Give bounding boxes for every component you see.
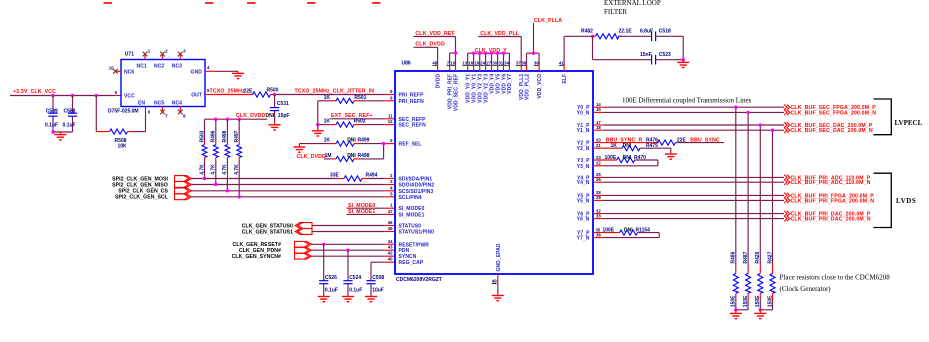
svg-text:Y5_N: Y5_N	[577, 198, 590, 204]
svg-text:9: 9	[115, 90, 118, 95]
svg-text:PRI_REFN: PRI_REFN	[399, 99, 425, 105]
wire R486/R487 bottoms join	[736, 309, 748, 311]
wire transmission line 4 from Y1_N	[772, 130, 774, 265]
resistor R470 100E DNI across Y3	[593, 155, 658, 166]
wire CLK_PLLA to pins 38,39	[527, 23, 540, 71]
svg-text:R427: R427	[767, 251, 773, 263]
svg-text:GND: GND	[191, 69, 203, 75]
net CLK_BUF_SEC_DAC_200.0M_N label	[784, 128, 873, 135]
wire CLK_VDD_REF to pins 7,10	[414, 37, 456, 72]
svg-text:38: 38	[521, 61, 526, 66]
wire CLK_VDD_PLL to pin 37	[478, 37, 521, 72]
svg-text:C508: C508	[372, 275, 384, 281]
svg-text:13: 13	[463, 61, 468, 66]
svg-text:VDD_Y7: VDD_Y7	[507, 74, 513, 94]
node junction Y1_N tap	[771, 129, 774, 132]
ground below R501/R502 node	[312, 125, 324, 136]
svg-text:VDD_Y4: VDD_Y4	[489, 74, 495, 94]
svg-text:SI_MODE0: SI_MODE0	[399, 206, 425, 212]
svg-text:1K: 1K	[324, 138, 331, 144]
svg-text:TCXO_25MHz: TCXO_25MHz	[210, 89, 245, 95]
svg-text:NC3: NC3	[172, 64, 182, 70]
ground below C589/C588	[54, 132, 66, 140]
svg-text:ELF: ELF	[562, 74, 568, 84]
svg-text:DNI: DNI	[266, 113, 275, 119]
wire RESET line	[311, 243, 395, 245]
svg-text:C526: C526	[325, 275, 337, 281]
wire CLK_VDD_Y rail to pins 13-34	[468, 53, 510, 71]
node junction SCL/R497	[238, 195, 241, 198]
svg-text:11: 11	[388, 113, 393, 118]
resistor R508 10K	[110, 129, 146, 149]
svg-text:EXTERNAL LOOP: EXTERNAL LOOP	[604, 0, 661, 7]
resistor R502 1K on SEC_REFN	[318, 119, 395, 128]
wire +3.3V rail	[10, 95, 121, 97]
wire Y6_N output line	[593, 213, 784, 218]
svg-text:46: 46	[388, 220, 393, 225]
svg-text:GND_EPAD: GND_EPAD	[496, 243, 502, 271]
svg-text:CLK_DVDD: CLK_DVDD	[415, 41, 445, 47]
node junction pin7 branch	[454, 51, 457, 54]
svg-text:150E: 150E	[743, 295, 749, 307]
svg-text:100E: 100E	[603, 227, 615, 233]
node junction rail R498b	[226, 118, 229, 121]
resistor R1154 100E DNI across Y7	[593, 227, 659, 237]
pin NC2 no-connect	[160, 49, 168, 60]
wire STATUS0 line	[312, 225, 395, 227]
svg-text:47: 47	[388, 209, 393, 214]
svg-text:R487: R487	[743, 251, 749, 263]
net CLK_BUF_PRI_DAC_200.0M_P label	[784, 211, 871, 218]
connector CLK_GEN_PDN#	[295, 247, 312, 253]
connector SPI2_CLK_GEN_CS	[175, 188, 192, 194]
svg-text:U86: U86	[402, 61, 411, 67]
svg-text:D75F-025.0M: D75F-025.0M	[108, 108, 139, 114]
svg-text:CLK_BUF_SEC_FPGA_200.0M_N: CLK_BUF_SEC_FPGA_200.0M_N	[791, 110, 877, 116]
svg-text:1K: 1K	[324, 119, 331, 125]
svg-text:150E: 150E	[755, 295, 761, 307]
ground below R486/R487	[730, 310, 742, 319]
wire cap bottoms join	[53, 131, 73, 133]
wire transmission line 3 from Y1_P	[759, 125, 761, 265]
ground at REF_SEL resistor left	[293, 144, 305, 153]
svg-text:33: 33	[596, 213, 601, 218]
svg-text:SPI2_CLK_GEN_MISO: SPI2_CLK_GEN_MISO	[112, 182, 168, 188]
resistor R427 150E	[767, 251, 775, 309]
svg-text:10: 10	[109, 65, 114, 70]
node junction R501/R502	[316, 123, 319, 126]
net EXT_SEC_REF+ wire to SEC_REFP	[330, 113, 395, 119]
resistor R496 4.7K pullup	[211, 119, 219, 184]
svg-text:VDD_PLL2: VDD_PLL2	[524, 74, 530, 100]
wire Y1_N output line	[593, 125, 784, 130]
svg-text:27: 27	[486, 61, 491, 66]
svg-text:43: 43	[388, 245, 393, 250]
resistor R501 1K on PRI_REFN	[318, 95, 395, 104]
svg-text:1M: 1M	[325, 153, 332, 159]
svg-text:44: 44	[388, 239, 393, 244]
ground below C508	[365, 297, 377, 302]
svg-text:6: 6	[148, 110, 151, 115]
U86 left pin numbers	[388, 89, 393, 262]
svg-text:15: 15	[596, 107, 601, 112]
wire VCC to R508 branch	[96, 96, 109, 132]
svg-text:BBU_SYNC: BBU_SYNC	[690, 138, 720, 144]
resistor R499 1K DNI on REF_SEL	[299, 138, 395, 147]
svg-text:20: 20	[596, 137, 601, 142]
resistor R497 4.7K pullup	[234, 119, 242, 197]
node junction CS/R498	[226, 189, 229, 192]
wire R498 up to REF_SEL	[383, 144, 385, 159]
net BBU_SYNC_R / resistor R476 22E on Y2_P	[593, 137, 724, 145]
svg-text:100E: 100E	[605, 155, 617, 161]
svg-text:CLK_BUF_PRI_FPGA_200.0M_N: CLK_BUF_PRI_FPGA_200.0M_N	[791, 198, 875, 204]
resistor R503 4.7K pullup	[199, 119, 207, 178]
wire PDN line	[311, 249, 395, 251]
svg-text:EXT_SEC_REF+: EXT_SEC_REF+	[331, 113, 373, 119]
wire Y1_P output line	[593, 120, 784, 125]
svg-text:10: 10	[450, 61, 455, 66]
node junction loop filter ground	[682, 58, 685, 61]
svg-text:PRI_REFP: PRI_REFP	[399, 93, 425, 99]
connector SPI2_CLK_GEN_MOSI	[175, 176, 192, 182]
svg-text:29: 29	[596, 195, 601, 200]
node junction C531 tap	[273, 93, 276, 96]
svg-text:STATUS1/PIN0: STATUS1/PIN0	[399, 230, 435, 236]
svg-text:22.1E: 22.1E	[619, 29, 633, 35]
svg-text:CLK_BUF_SEC_DAC_200.0M_N: CLK_BUF_SEC_DAC_200.0M_N	[791, 128, 873, 134]
capacitor C531 DNI 15pF	[266, 95, 290, 124]
pin 49 number rotated	[492, 279, 498, 284]
svg-text:DNI: DNI	[347, 138, 356, 144]
node junction Y1_P tap	[759, 123, 762, 126]
svg-text:30: 30	[492, 61, 497, 66]
svg-text:5: 5	[390, 191, 393, 196]
svg-text:22E: 22E	[244, 89, 254, 95]
svg-text:8: 8	[183, 114, 186, 119]
node junction MOSI/R503	[203, 177, 206, 180]
net TCXO_25MHz wire	[210, 89, 254, 95]
node junction R486 bottom	[734, 308, 737, 311]
pin 5 OUT stub	[205, 88, 216, 95]
wire MOSI line with resistor R494 33E	[191, 173, 395, 181]
resistor R486 150E	[731, 251, 739, 309]
svg-text:SPI2_CLK_GEN_SCL: SPI2_CLK_GEN_SCL	[115, 195, 169, 201]
svg-text:R501: R501	[354, 95, 366, 101]
wire Y4_P output line	[593, 172, 784, 177]
U86 top pin names rotated	[435, 74, 568, 112]
connector SPI2_CLK_GEN_MISO	[175, 182, 192, 188]
node junction loop filter input	[591, 35, 594, 38]
svg-text:2: 2	[165, 49, 168, 54]
capacitor C518 6.8uF	[640, 29, 683, 42]
U86 right pin names	[577, 105, 590, 241]
svg-text:7: 7	[165, 114, 168, 119]
svg-text:R502: R502	[354, 119, 366, 125]
node junction Y0_N tap	[746, 111, 749, 114]
svg-text:150E: 150E	[731, 295, 737, 307]
net CLK_BUF_SEC_FPGA_200.0M_P label	[784, 105, 876, 112]
svg-text:1K: 1K	[611, 143, 618, 149]
capacitor C526 0.1uF	[319, 244, 338, 296]
svg-text:100E Differential coupled Tran: 100E Differential coupled Transmission L…	[622, 96, 752, 104]
svg-text:48: 48	[432, 61, 437, 66]
svg-text:22E: 22E	[677, 138, 687, 144]
svg-text:15pF: 15pF	[278, 113, 290, 119]
cropped net label underline dashes at top	[104, 2, 381, 4]
wire MISO line	[191, 184, 395, 186]
svg-text:(Clock Generator): (Clock Generator)	[780, 285, 832, 293]
wire ELF pin 41 to loop filter	[564, 36, 592, 71]
ground below C526	[318, 297, 330, 302]
svg-text:6.8uF: 6.8uF	[640, 29, 653, 35]
resistor R500 22E	[253, 87, 279, 97]
node junction rail R497	[238, 118, 241, 121]
ground below R475	[665, 154, 677, 159]
wire REG_CAP line	[371, 261, 395, 263]
svg-text:4.7K: 4.7K	[234, 164, 240, 175]
svg-text:DVDD: DVDD	[435, 74, 441, 89]
svg-text:CLK_BUF_PRI_ADC_110.0M_N: CLK_BUF_PRI_ADC_110.0M_N	[791, 180, 871, 186]
svg-text:23: 23	[596, 155, 601, 160]
svg-text:0.1uF: 0.1uF	[45, 123, 58, 129]
svg-text:DNI: DNI	[347, 153, 356, 159]
svg-text:Place resistors close to the C: Place resistors close to the CDCM6208	[780, 274, 891, 282]
svg-text:SEC_REFN: SEC_REFN	[399, 123, 427, 129]
net CLK_BUF_PRI_FPGA_200.0M_N label	[784, 198, 874, 205]
svg-text:Y0_N: Y0_N	[577, 110, 590, 116]
wire SYNCN line	[311, 255, 395, 257]
svg-text:R503: R503	[199, 130, 205, 142]
node junction rail R496	[214, 118, 217, 121]
pin NC4 no-connect	[178, 107, 186, 119]
svg-text:Y6_N: Y6_N	[577, 217, 590, 223]
svg-text:OUT: OUT	[191, 93, 202, 99]
svg-text:U71: U71	[125, 52, 134, 58]
svg-text:C524: C524	[349, 275, 361, 281]
bracket LVPECL	[874, 99, 923, 135]
svg-text:SDO/AD0/PIN2: SDO/AD0/PIN2	[399, 183, 435, 189]
svg-text:R426: R426	[755, 251, 761, 263]
wire transmission line 1 from Y0_P	[735, 107, 737, 265]
svg-text:Y7_N: Y7_N	[577, 236, 590, 242]
svg-text:0.1uF: 0.1uF	[325, 288, 338, 294]
node junction cap bottom	[51, 130, 54, 133]
wire R508 up to EN	[145, 107, 147, 132]
svg-text:45: 45	[388, 226, 393, 231]
node junction R426 bottom	[759, 308, 762, 311]
capacitor C589	[45, 96, 58, 133]
node junctions CLK_VDD_Y rail	[472, 52, 505, 55]
pin 4 GND wire to ground	[205, 65, 244, 79]
svg-text:33E: 33E	[330, 173, 340, 179]
wire Y0_N output line	[593, 107, 784, 112]
net CLK_DVDD pullup rail	[205, 113, 268, 119]
svg-text:4.7K: 4.7K	[222, 164, 228, 175]
svg-text:19: 19	[475, 61, 480, 66]
svg-text:10K: 10K	[118, 143, 128, 149]
svg-text:REF_SEL: REF_SEL	[399, 142, 422, 148]
svg-text:CLK_PLLA: CLK_PLLA	[534, 18, 562, 24]
svg-text:0.1uF: 0.1uF	[349, 288, 362, 294]
wire loop filter lower branch	[593, 36, 652, 59]
svg-text:NC2: NC2	[154, 64, 164, 70]
wire Y0_P output line	[593, 102, 784, 107]
svg-text:R498: R498	[222, 130, 228, 142]
svg-text:16: 16	[468, 61, 473, 66]
wire Y7_N line	[593, 232, 659, 237]
svg-text:22: 22	[596, 161, 601, 166]
svg-text:8: 8	[390, 89, 393, 94]
svg-text:10uF: 10uF	[372, 288, 384, 294]
U86 left pin names	[399, 93, 435, 267]
svg-text:VDD_Y0_Y1: VDD_Y0_Y1	[471, 74, 477, 103]
svg-text:R494: R494	[366, 173, 378, 179]
svg-text:CLK_BUF_PRI_DAC_200.0M_N: CLK_BUF_PRI_DAC_200.0M_N	[791, 217, 871, 223]
wire Y5_P output line	[593, 190, 784, 195]
net CLK_BUF_PRI_DAC_200.0M_N label	[784, 216, 871, 223]
wire C518 down to ground node	[682, 36, 684, 59]
svg-text:Y3_N: Y3_N	[577, 164, 590, 170]
svg-text:26: 26	[596, 177, 601, 182]
U86 top pin numbers rotated	[432, 61, 564, 66]
node junction CLK_PLLA rail	[532, 52, 535, 55]
node junction MISO/R496	[214, 183, 217, 186]
resistor R498 4.7K pullup	[222, 119, 230, 191]
IC U86 CDCM6208 body	[395, 61, 593, 283]
capacitor C523 15nF	[640, 52, 683, 65]
connector CLK_GEN_SYNCN#	[295, 253, 312, 259]
net CLK_BUF_PRI_ADC_110.0M_N label	[784, 180, 871, 187]
wire Y4_N output line	[593, 177, 784, 182]
ground below R426/R427	[754, 310, 766, 319]
capacitor C524 0.1uF	[343, 250, 362, 296]
wire CS line	[191, 190, 395, 192]
svg-text:0.1uF: 0.1uF	[63, 123, 76, 129]
connector CLK_GEN_STATUS1	[295, 229, 312, 235]
svg-text:CDCM6208V2RGZT: CDCM6208V2RGZT	[396, 277, 442, 283]
pin NC3 no-connect	[178, 49, 186, 60]
svg-text:Y2_N: Y2_N	[577, 146, 590, 152]
svg-text:EN: EN	[138, 100, 145, 106]
svg-text:24: 24	[480, 61, 485, 66]
connector CLK_GEN_STATUS0	[295, 223, 312, 229]
svg-text:R496: R496	[211, 130, 217, 142]
svg-text:12: 12	[388, 119, 393, 124]
svg-text:R482: R482	[581, 29, 593, 35]
capacitor C508 10uF on REG_CAP	[366, 262, 384, 296]
net SI_MODE0 wire	[347, 203, 396, 209]
svg-text:1: 1	[148, 49, 151, 54]
svg-text:21: 21	[596, 143, 601, 148]
svg-text:VCC: VCC	[124, 94, 135, 100]
svg-text:18: 18	[596, 125, 601, 130]
svg-text:C588: C588	[64, 109, 76, 115]
wire CLK_DVDD to pin 48	[414, 47, 438, 71]
node junction Y0_P tap	[734, 106, 737, 109]
svg-text:6: 6	[390, 138, 393, 143]
wire R426/R427 bottoms join	[760, 309, 772, 311]
svg-text:R499: R499	[358, 138, 370, 144]
svg-text:39: 39	[534, 61, 539, 66]
capacitor C588	[63, 96, 78, 133]
svg-text:Y4_N: Y4_N	[577, 180, 590, 186]
resistor R482 22.1E	[581, 29, 652, 39]
svg-text:1: 1	[390, 203, 393, 208]
svg-text:1K: 1K	[324, 95, 331, 101]
pin NC5 no-connect	[160, 107, 168, 119]
svg-text:40: 40	[388, 257, 393, 262]
svg-text:FILTER: FILTER	[604, 8, 627, 16]
svg-text:TCXO_25MHz_CLK_JITTER_IN: TCXO_25MHz_CLK_JITTER_IN	[295, 89, 375, 95]
wire R501 left down to R502 node	[317, 101, 319, 125]
svg-text:NC6: NC6	[124, 69, 134, 75]
svg-text:+3.3V_CLK_VCC: +3.3V_CLK_VCC	[13, 89, 56, 95]
svg-text:41: 41	[559, 61, 564, 66]
text EXTERNAL LOOP FILTER	[604, 0, 661, 16]
svg-text:C531: C531	[277, 101, 289, 107]
svg-text:36: 36	[596, 232, 601, 237]
net CLK_BUF_PRI_FPGA_200.0M_P label	[784, 193, 874, 200]
svg-text:CLK_GEN_STATUS1: CLK_GEN_STATUS1	[242, 229, 293, 235]
pin NC1 no-connect	[143, 49, 151, 60]
svg-text:NC1: NC1	[137, 64, 147, 70]
resistor R475 1K DNI on Y2_N	[593, 143, 671, 154]
ground below C524	[342, 297, 354, 302]
node junction C588 tap	[71, 94, 74, 97]
svg-text:4: 4	[390, 185, 393, 190]
svg-text:31: 31	[498, 61, 503, 66]
svg-text:R500: R500	[267, 87, 279, 93]
svg-text:3: 3	[183, 49, 186, 54]
wire Y5_N output line	[593, 195, 784, 200]
svg-text:C518: C518	[659, 29, 671, 35]
net TCXO_25MHz_CLK_JITTER_IN wire to PRI_REFP	[275, 89, 395, 95]
svg-text:LVDS: LVDS	[896, 197, 916, 205]
svg-text:SI_MODE1: SI_MODE1	[399, 212, 425, 218]
svg-text:R498: R498	[358, 153, 370, 159]
oscillator U71	[108, 52, 205, 115]
svg-text:C589: C589	[46, 109, 58, 115]
svg-text:4.7K: 4.7K	[199, 164, 205, 175]
svg-text:4.7K: 4.7K	[211, 164, 217, 175]
connector SPI2_CLK_GEN_SCL	[175, 194, 192, 200]
net CLK_BUF_SEC_DAC_200.0M_P label	[784, 122, 873, 129]
svg-text:15nF: 15nF	[640, 52, 652, 58]
svg-text:REG_CAP: REG_CAP	[399, 260, 424, 266]
wire SCL line	[191, 196, 395, 198]
svg-text:3: 3	[390, 179, 393, 184]
node junction REF_SEL/R498	[382, 142, 385, 145]
svg-text:9: 9	[390, 95, 393, 100]
wire Y3_N line	[593, 161, 658, 166]
ground below EPAD	[492, 296, 504, 301]
svg-text:C523: C523	[659, 52, 671, 58]
net CLK_BUF_PRI_ADC_110.0M_P label	[784, 175, 871, 182]
svg-text:34: 34	[504, 61, 509, 66]
resistor R426 150E	[755, 251, 763, 309]
wire transmission line 2 from Y0_N	[747, 112, 749, 265]
svg-text:4: 4	[207, 65, 210, 70]
wire STATUS1 line	[312, 231, 395, 233]
svg-text:NC5: NC5	[154, 100, 164, 106]
node junction RESET/C526	[322, 243, 325, 246]
bracket LVDS	[874, 173, 917, 227]
svg-text:SCL/PIN4: SCL/PIN4	[399, 195, 422, 201]
connector CLK_GEN_RESET#	[295, 241, 312, 247]
svg-text:NC4: NC4	[172, 100, 182, 106]
pin NC6 no-connect	[109, 65, 121, 73]
